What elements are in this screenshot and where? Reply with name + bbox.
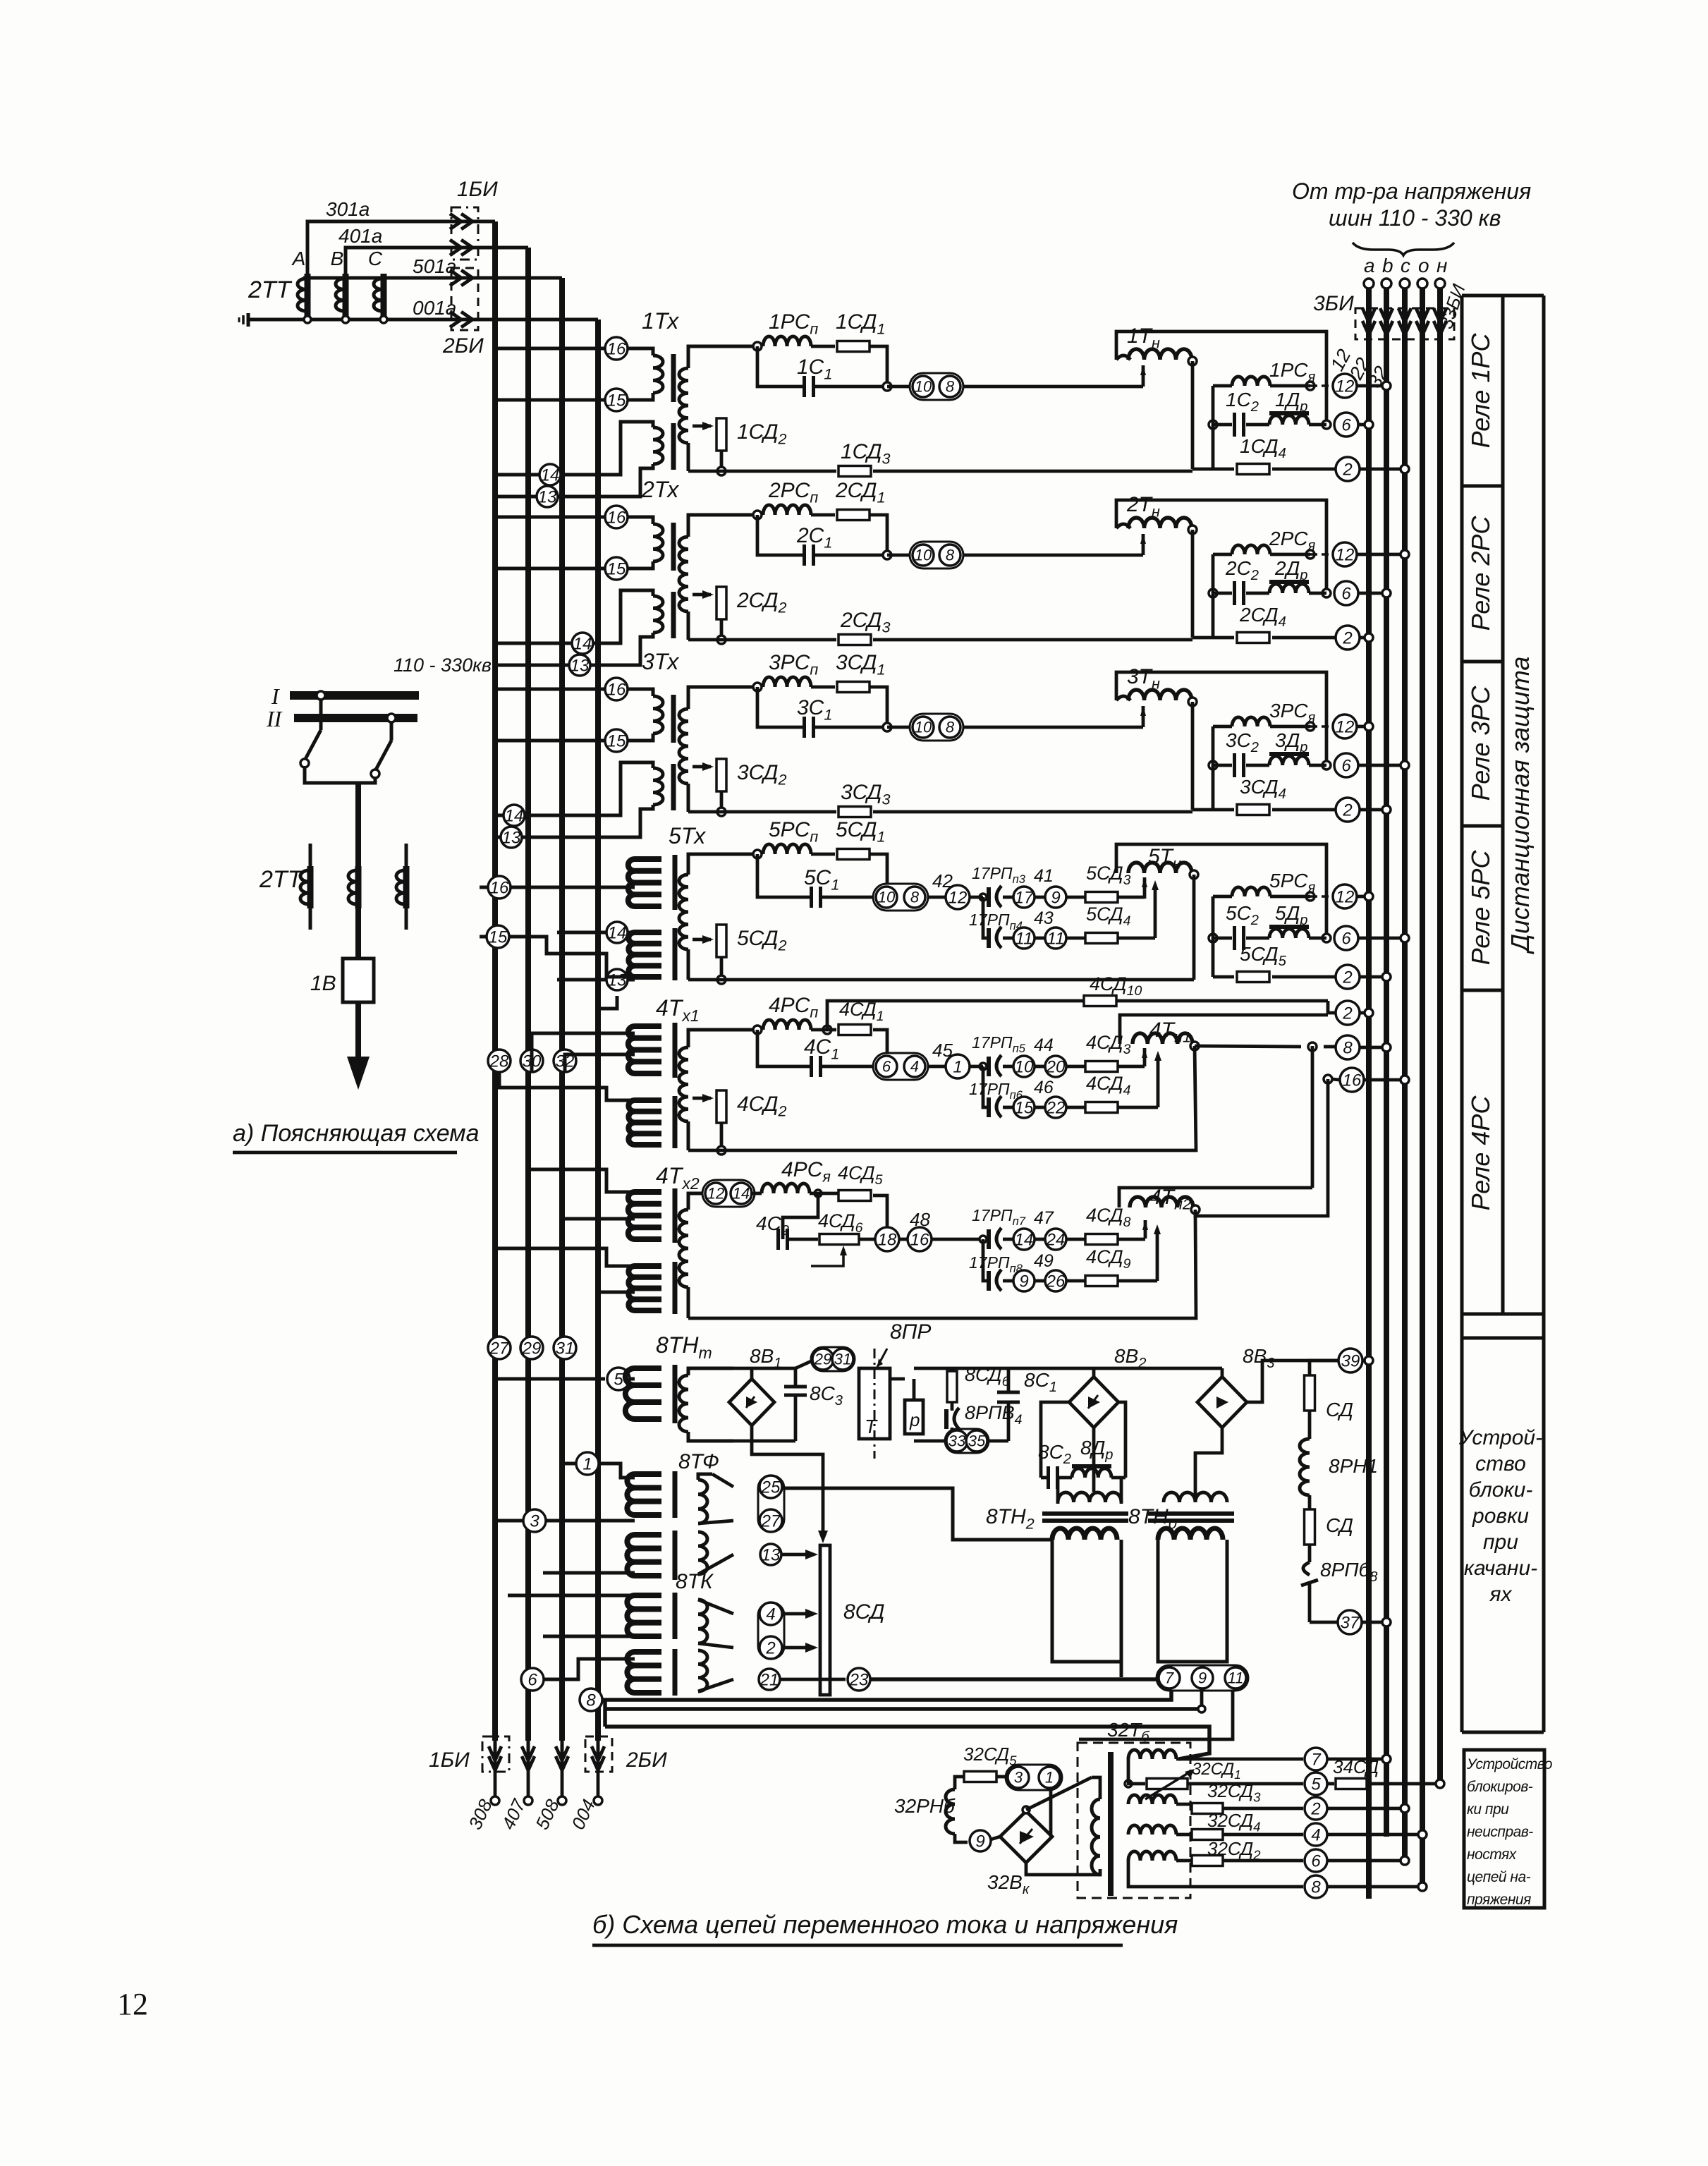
svg-text:8ТК: 8ТК (676, 1570, 714, 1593)
svg-text:16: 16 (1343, 1071, 1362, 1090)
svg-text:13: 13 (502, 828, 521, 847)
svg-text:при: при (1483, 1531, 1518, 1554)
terminal 37 (1310, 1621, 1337, 1624)
svg-text:6: 6 (1341, 929, 1351, 948)
capacitor 1С2 (1209, 420, 1217, 429)
svg-text:н: н (1436, 255, 1447, 276)
wires from 4Тн2 to terminals 8 16 (1311, 1046, 1314, 1188)
terminals 10 8 and 12 (873, 884, 928, 911)
svg-text:Устройство: Устройство (1466, 1756, 1553, 1772)
4Тх1 secondary winding (688, 1030, 757, 1047)
wire 25 to 8ТН2 (782, 1488, 1052, 1540)
svg-text:9: 9 (1198, 1669, 1207, 1687)
svg-text:8ПР: 8ПР (890, 1320, 931, 1344)
svg-text:11: 11 (1015, 929, 1033, 948)
svg-text:49: 49 (1034, 1251, 1054, 1271)
wire to 3Тн with tap arrow (963, 726, 1143, 729)
svg-text:4: 4 (910, 1058, 919, 1076)
svg-text:39: 39 (1341, 1351, 1360, 1370)
svg-text:32СД5: 32СД5 (963, 1744, 1017, 1768)
svg-text:Реле 1РС: Реле 1РС (1466, 333, 1495, 449)
resistor 8СД6 (947, 1371, 957, 1402)
svg-text:22: 22 (1046, 1098, 1066, 1117)
svg-text:15: 15 (1015, 1098, 1034, 1117)
terminals 10 8 (887, 554, 911, 557)
choke 5Др (1246, 937, 1269, 940)
svg-text:14: 14 (505, 806, 524, 825)
inductor 3РСп (763, 677, 811, 687)
svg-text:12: 12 (948, 888, 968, 907)
svg-text:14: 14 (541, 466, 560, 485)
resistor 5СД2 (tap) (693, 938, 711, 942)
svg-text:301а: 301а (326, 198, 370, 220)
svg-text:8: 8 (946, 547, 955, 564)
terminal 2 (1336, 798, 1360, 822)
svg-text:2: 2 (765, 1638, 775, 1657)
branch with 17РПп4 (983, 897, 989, 938)
svg-text:14: 14 (608, 923, 627, 942)
contact 17РПп7 (987, 1229, 991, 1249)
32Вк to transformer (1023, 1806, 1030, 1813)
svg-text:1: 1 (953, 1057, 962, 1076)
line with arrow down (355, 1002, 361, 1058)
output 8 (1128, 1861, 1303, 1887)
svg-text:блоки-: блоки- (1469, 1478, 1533, 1502)
svg-text:Реле 3РС: Реле 3РС (1466, 686, 1495, 801)
inductor 4РСп (763, 1020, 811, 1030)
svg-text:15: 15 (489, 927, 508, 947)
svg-text:12: 12 (707, 1185, 724, 1203)
8ТН0 top lead (1195, 1428, 1222, 1502)
svg-text:8: 8 (910, 889, 920, 906)
resistor 1СД3 (long wire) (688, 470, 836, 473)
resistor 4СД6 (potentiometer) (788, 1238, 818, 1241)
resistor 4СД1 (823, 1026, 831, 1034)
svg-text:14: 14 (733, 1185, 750, 1203)
resistor 5СД5 (1212, 896, 1215, 977)
32Тб left winding bottom lead (1026, 1863, 1100, 1875)
feeder line down (355, 783, 361, 959)
svg-text:шин 110 - 330 кв: шин 110 - 330 кв (1329, 205, 1501, 231)
inductor 1РСя (1213, 384, 1232, 388)
capacitor 4С1 (873, 1030, 887, 1066)
resistor 4СД10 wire (827, 1001, 1083, 1030)
bottom return wire of channel 5 (688, 978, 1194, 982)
left terminals 16 15 14 13 of 5Тх (480, 886, 635, 889)
contact 17РПп4 (987, 928, 991, 948)
svg-text:8: 8 (1343, 1038, 1353, 1057)
inductor 1РСп (763, 336, 811, 346)
svg-text:3: 3 (530, 1511, 539, 1531)
terminal 12 (1310, 553, 1334, 556)
svg-text:12: 12 (117, 1987, 148, 2021)
svg-text:25: 25 (761, 1478, 781, 1497)
capacitor 2С2 (1209, 589, 1217, 597)
coil 8РН1 (1300, 1439, 1310, 1495)
4СД2 tap resistor of 4Тх1 (693, 1097, 711, 1100)
terminals 29 31 stadium (811, 1347, 855, 1371)
inductor 2РСя (1213, 553, 1232, 556)
bottom return of 4Тн2 (688, 1216, 1196, 1318)
svg-text:9: 9 (1051, 888, 1060, 907)
wire 301а (307, 221, 495, 274)
resistor 3СД2 (tap) (693, 765, 711, 769)
svg-text:СД: СД (1326, 1399, 1353, 1420)
svg-text:6: 6 (1311, 1851, 1321, 1870)
block 2БИ (dashed box with arrows) (451, 268, 478, 330)
resistor 2СД2 (tap) (693, 593, 711, 597)
svg-text:ки при: ки при (1467, 1801, 1509, 1818)
wire to 1Тн with tap arrow (963, 385, 1143, 389)
8РН1 blocking chain (1310, 1361, 1338, 1377)
block 3БИ (dashed box with arrows on buses) (1355, 308, 1454, 339)
svg-text:110 - 330кв: 110 - 330кв (394, 655, 492, 676)
svg-text:4: 4 (1311, 1825, 1320, 1844)
svg-text:18: 18 (878, 1230, 897, 1249)
svg-text:12: 12 (1336, 377, 1355, 396)
svg-text:14: 14 (1015, 1230, 1034, 1249)
svg-text:15: 15 (607, 731, 626, 750)
svg-text:15: 15 (607, 559, 626, 578)
jogs into 4Тх2 (528, 1169, 635, 1192)
svg-text:23: 23 (849, 1670, 869, 1689)
capacitor 8С1 (1007, 1368, 1011, 1392)
svg-text:13: 13 (762, 1545, 781, 1564)
svg-text:8: 8 (1311, 1878, 1321, 1897)
svg-text:2БИ: 2БИ (442, 334, 484, 358)
choke 3Др (1246, 764, 1269, 767)
capacitor 1С1 parallel branch (870, 346, 887, 387)
svg-text:8ТФ: 8ТФ (678, 1450, 719, 1473)
svg-text:33: 33 (948, 1432, 966, 1450)
svg-text:32СД1: 32СД1 (1192, 1760, 1241, 1782)
svg-text:9: 9 (1019, 1272, 1028, 1291)
svg-text:7: 7 (1165, 1669, 1174, 1687)
8ТФ secondary with taps (698, 1480, 707, 1523)
svg-text:цепей на-: цепей на- (1467, 1869, 1531, 1885)
svg-text:26: 26 (1046, 1272, 1066, 1291)
svg-text:8: 8 (946, 719, 955, 736)
terminals 12 14 of 4Тх2 (702, 1180, 755, 1207)
svg-text:b: b (1382, 255, 1393, 276)
svg-text:Дистанционная защита: Дистанционная защита (1506, 657, 1535, 955)
svg-text:44: 44 (1034, 1035, 1054, 1055)
svg-text:501а: 501а (413, 255, 456, 277)
5Тх primary windings (thick) (635, 856, 661, 862)
svg-text:5Тх: 5Тх (669, 823, 706, 848)
terminal 2 of channel 5 (1336, 965, 1360, 989)
svg-text:6: 6 (1341, 756, 1351, 775)
output 7 (1176, 1758, 1303, 1761)
resistor 2СД1 (811, 513, 835, 517)
transformer 32Тб (dashed box) (1078, 1743, 1190, 1898)
svg-text:С: С (368, 248, 383, 269)
branch with 17РПп6 (983, 1066, 989, 1107)
secondary winding of 3Тх (688, 687, 757, 709)
svg-text:Реле 5РС: Реле 5РС (1466, 850, 1495, 966)
svg-text:34СД: 34СД (1333, 1756, 1379, 1777)
secondary winding of 2Тх (688, 515, 757, 537)
wire 001а (303, 318, 598, 322)
terminal 12 (1310, 725, 1334, 728)
terminals 10 8 (887, 385, 911, 389)
svg-text:1БИ: 1БИ (457, 178, 498, 201)
svg-text:неисправ-: неисправ- (1467, 1824, 1533, 1840)
svg-text:29: 29 (814, 1351, 831, 1368)
core of 1Тх (671, 354, 676, 402)
svg-text:47: 47 (1034, 1208, 1054, 1228)
5Тх core (673, 855, 678, 910)
resistor 1СД4 (1212, 386, 1215, 469)
core of 2Тх (671, 523, 676, 571)
terminals 10 8 (887, 726, 911, 729)
resistor 2СД4 (1212, 554, 1215, 638)
svg-text:9: 9 (975, 1832, 984, 1851)
capacitor 5С1 (870, 854, 887, 897)
svg-text:II: II (266, 706, 283, 731)
svg-text:10: 10 (915, 719, 932, 736)
terminals 33 35 stadium (945, 1429, 989, 1453)
svg-text:10: 10 (915, 378, 932, 396)
svg-text:1: 1 (582, 1454, 592, 1473)
8ТН0 lower winding (1158, 1528, 1223, 1540)
resistor 2СД3 (long wire) (688, 638, 836, 642)
svg-text:43: 43 (1034, 908, 1054, 928)
svg-text:41: 41 (1034, 866, 1054, 886)
left terminals 28 30 32 on bundle (488, 1049, 511, 1072)
terminal 6 (1334, 753, 1358, 777)
choke 1Др (1246, 423, 1269, 427)
resistor 5СД4 (1066, 937, 1086, 940)
svg-text:11: 11 (1047, 929, 1065, 948)
inductor 4РСя (762, 1184, 810, 1193)
svg-text:8СД: 8СД (843, 1600, 884, 1624)
vertical voltage bus lines a b c o н (1366, 288, 1372, 1899)
svg-text:46: 46 (1034, 1078, 1054, 1097)
rectifier 32Вк (1000, 1811, 1052, 1863)
svg-text:Т: Т (865, 1416, 878, 1437)
svg-text:13: 13 (571, 656, 590, 675)
resistor 4СД5 (815, 1190, 822, 1197)
terminals 18 16 (859, 1238, 874, 1241)
svg-text:16: 16 (910, 1230, 929, 1249)
8ТНт secondary (679, 1375, 688, 1432)
resistor 4СД3 (1066, 1065, 1086, 1069)
svg-text:15: 15 (607, 391, 626, 410)
svg-text:5: 5 (1311, 1775, 1321, 1794)
capacitor 4С2 (783, 1193, 818, 1239)
svg-text:6: 6 (527, 1670, 537, 1689)
svg-text:401а: 401а (338, 225, 382, 247)
secondary winding of 1Тх (688, 346, 757, 368)
resistor 3СД4 (1212, 726, 1215, 810)
terminal 6 (1334, 581, 1358, 605)
svg-text:12: 12 (1336, 887, 1355, 906)
long bottom wire to terminal 9 (603, 1700, 607, 1727)
svg-text:2: 2 (1342, 628, 1352, 647)
svg-text:14: 14 (573, 634, 592, 653)
svg-text:13: 13 (538, 487, 557, 506)
8ТН2 lower winding (1052, 1528, 1117, 1540)
svg-text:12: 12 (1336, 717, 1355, 736)
svg-text:24: 24 (1046, 1230, 1066, 1249)
terminal 8 of channel 4 (1195, 1046, 1301, 1047)
branch with 17РПп5 (980, 1063, 987, 1070)
block 1БИ (dash-dot box with arrows) (451, 207, 478, 260)
bottom return of 4Тн1 (688, 1046, 1196, 1150)
contact 17РПп8 (987, 1271, 991, 1291)
terminal 6 of channel 5 (1334, 926, 1358, 950)
choke 2Др (1246, 592, 1269, 595)
terminal 2 (1336, 626, 1360, 650)
terminal 6 (1334, 413, 1358, 437)
svg-text:ровки: ровки (1472, 1504, 1529, 1528)
resistor 5СД1 (811, 853, 835, 856)
svg-text:5: 5 (614, 1370, 623, 1389)
svg-text:6: 6 (1341, 415, 1351, 434)
svg-text:7: 7 (1311, 1750, 1322, 1769)
svg-text:17: 17 (1015, 888, 1035, 907)
table: protection functions column (1460, 296, 1464, 1732)
wire 21-23 to terminals 7 9 11 (781, 1678, 846, 1681)
svg-text:2Тх: 2Тх (641, 477, 679, 502)
svg-text:2ТТ: 2ТТ (248, 276, 293, 303)
svg-text:10: 10 (878, 889, 896, 906)
svg-text:c: c (1401, 255, 1410, 276)
svg-text:2: 2 (1342, 460, 1352, 479)
svg-text:16: 16 (607, 680, 626, 699)
svg-text:пряжения: пряжения (1467, 1892, 1531, 1908)
capacitor 2С1 parallel branch (870, 515, 887, 555)
svg-text:От тр-ра напряжения: От тр-ра напряжения (1292, 178, 1531, 204)
brace under header (1353, 243, 1454, 255)
contact 8РПВ4 (951, 1402, 954, 1411)
svg-text:21: 21 (760, 1670, 779, 1689)
capacitor 5С2 (1209, 934, 1217, 942)
cell Устройство блокировки при неисправностях цепей напряжения (1464, 1750, 1544, 1908)
winding р of 8ПР (905, 1400, 923, 1434)
svg-text:6: 6 (1341, 584, 1351, 603)
svg-text:2: 2 (1310, 1799, 1320, 1818)
svg-text:3: 3 (1014, 1769, 1023, 1787)
svg-text:29: 29 (522, 1339, 542, 1358)
left taps 1 3 6 8 circles (576, 1452, 599, 1475)
svg-text:32СД3: 32СД3 (1207, 1780, 1261, 1805)
svg-text:Реле 2РС: Реле 2РС (1466, 516, 1495, 631)
svg-text:16: 16 (607, 339, 626, 358)
terminal 12 of 5РСя (1310, 895, 1334, 898)
svg-text:8РН1: 8РН1 (1329, 1455, 1378, 1477)
wire to terminal 39 (1247, 1361, 1338, 1402)
wires 9 11 down to 32 block (1200, 1691, 1204, 1709)
svg-text:Реле 4РС: Реле 4РС (1466, 1095, 1495, 1211)
svg-text:37: 37 (1341, 1613, 1360, 1632)
5Тх secondary winding (688, 854, 757, 875)
svg-text:a: a (1364, 255, 1375, 276)
breaker 1В (343, 959, 374, 1002)
wire 401а (346, 248, 528, 274)
svg-text:3Тх: 3Тх (642, 649, 679, 674)
inductor 5РСп (763, 844, 811, 854)
svg-text:СД: СД (1326, 1514, 1353, 1536)
capacitor 8С3 (752, 1367, 795, 1370)
svg-text:ностях: ностях (1467, 1846, 1518, 1863)
branch with 17РПп7 (980, 1236, 987, 1243)
inductor 2РСп (763, 505, 811, 515)
terminal 2 of channel 4 (1336, 1001, 1360, 1025)
terminals 3 1 (1006, 1765, 1062, 1790)
svg-text:2: 2 (1342, 801, 1352, 820)
branch with 17РПп3 (980, 894, 987, 901)
svg-text:блокиров-: блокиров- (1467, 1779, 1533, 1795)
svg-text:ях: ях (1489, 1583, 1512, 1606)
svg-text:12: 12 (1336, 545, 1355, 564)
resistor 5СД3 (1066, 896, 1086, 899)
svg-text:16: 16 (490, 878, 509, 897)
resistor 1СД2 (tap) (693, 425, 711, 428)
long bottom wire to 32Тб (605, 1727, 1209, 1759)
svg-text:1: 1 (1045, 1769, 1054, 1787)
svg-text:1В: 1В (310, 972, 336, 995)
svg-text:8: 8 (946, 378, 955, 396)
wire 501а (374, 274, 384, 278)
capacitor 3С1 parallel branch (870, 687, 887, 727)
contact 8РПб8 (1308, 1545, 1312, 1562)
resistor 4СД8 (1066, 1238, 1086, 1241)
svg-text:В: В (331, 248, 344, 269)
terminals 6 4 and 1 (873, 1053, 928, 1080)
wire from rail into 8СД bar (752, 1441, 823, 1531)
jog wires into 4Тх1 windings (499, 1072, 635, 1100)
svg-text:13: 13 (608, 971, 627, 990)
svg-text:35: 35 (968, 1432, 986, 1450)
svg-text:28: 28 (489, 1052, 509, 1071)
svg-text:4: 4 (766, 1605, 775, 1624)
svg-text:1Тх: 1Тх (642, 308, 679, 334)
svg-text:27: 27 (489, 1339, 510, 1358)
svg-text:А: А (291, 248, 306, 269)
inductor 3РСя (1213, 725, 1232, 729)
svg-text:10: 10 (915, 547, 932, 564)
svg-text:2БИ: 2БИ (626, 1748, 667, 1772)
extra feeder wires into 8ТФ and 8ТК (543, 1571, 635, 1575)
svg-text:2ТТ: 2ТТ (259, 866, 304, 893)
svg-text:6: 6 (882, 1058, 891, 1076)
core of 3Тх (671, 695, 676, 743)
long bottom wire from 8 to terminal 7 (602, 1691, 1171, 1700)
svg-text:качани-: качани- (1464, 1557, 1537, 1580)
branch with 17РПп8 (983, 1239, 989, 1281)
contact 17РПп3 (987, 887, 991, 907)
4Тх2 secondary winding (688, 1193, 704, 1210)
svg-text:р: р (909, 1409, 920, 1430)
32Тб right windings (1128, 1750, 1176, 1759)
svg-text:11: 11 (1228, 1669, 1244, 1687)
svg-text:31: 31 (556, 1339, 575, 1358)
svg-text:001а: 001а (413, 297, 456, 319)
resistor 4СД4 (1066, 1106, 1086, 1109)
32Тб left winding (1092, 1799, 1100, 1875)
resistor 1СД1 (811, 345, 835, 348)
capacitor 3С2 (1209, 761, 1217, 769)
svg-text:Устрой-: Устрой- (1458, 1426, 1542, 1449)
output 5 with 34СД (1125, 1780, 1132, 1787)
svg-text:б) Схема цепей переменного: б) Схема цепей переменного тока и напряж… (592, 1910, 1178, 1939)
svg-text:1БИ: 1БИ (429, 1748, 470, 1772)
svg-text:ство: ство (1475, 1452, 1526, 1476)
bar 8СД (820, 1545, 830, 1695)
terminal 16 of channel 4 (1324, 1075, 1332, 1083)
